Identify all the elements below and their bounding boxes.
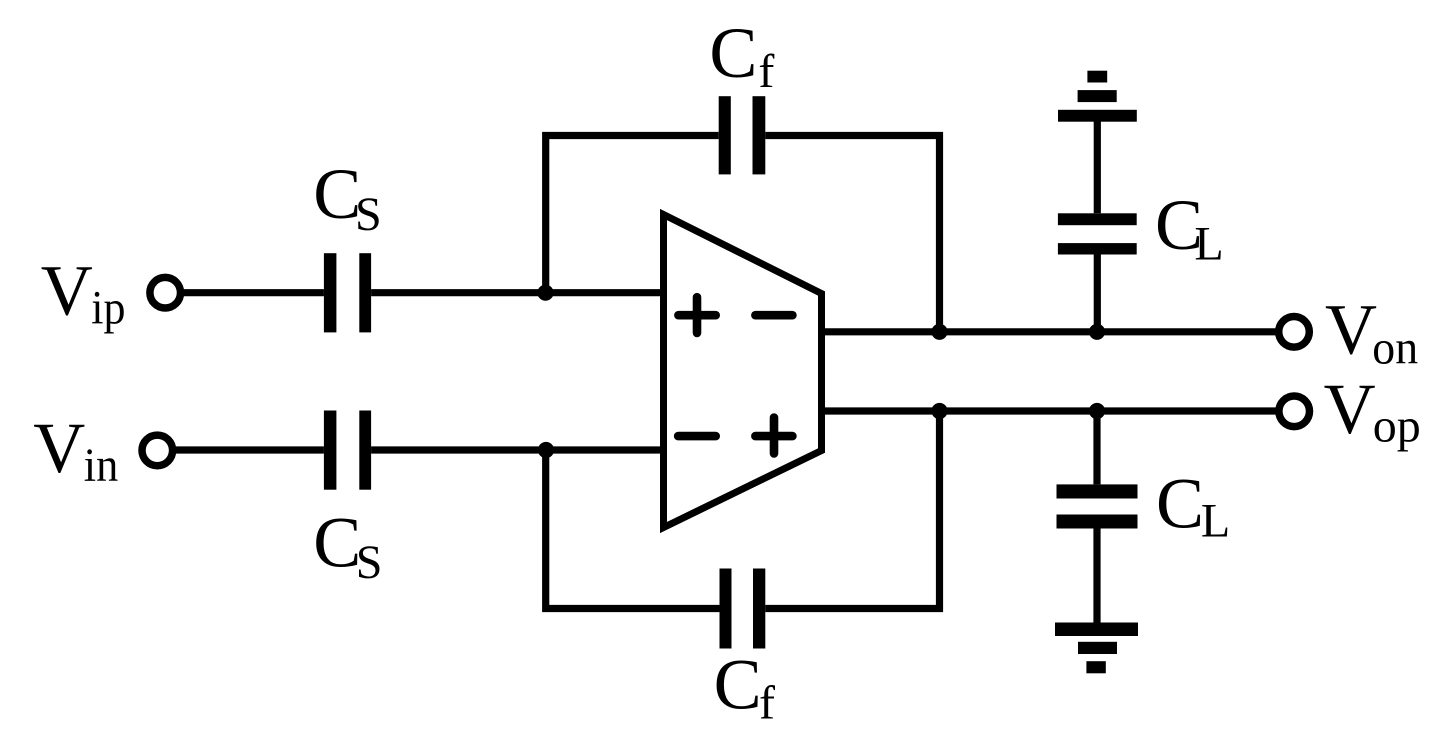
- svg-text:V: V: [1325, 290, 1377, 370]
- svg-text:op: op: [1373, 400, 1421, 453]
- svg-text:f: f: [758, 45, 774, 98]
- svg-text:S: S: [356, 536, 383, 589]
- svg-text:f: f: [759, 676, 775, 729]
- svg-text:C: C: [313, 502, 361, 582]
- svg-text:in: in: [84, 439, 119, 492]
- svg-text:S: S: [355, 188, 382, 241]
- svg-text:C: C: [709, 13, 757, 93]
- svg-text:V: V: [41, 251, 93, 331]
- svg-text:V: V: [33, 408, 85, 488]
- svg-text:on: on: [1372, 321, 1418, 374]
- svg-text:ip: ip: [91, 281, 125, 334]
- svg-text:C: C: [1156, 464, 1204, 544]
- svg-text:V: V: [1324, 369, 1376, 449]
- svg-text:C: C: [714, 645, 762, 725]
- svg-text:L: L: [1194, 218, 1223, 271]
- svg-text:L: L: [1201, 495, 1230, 548]
